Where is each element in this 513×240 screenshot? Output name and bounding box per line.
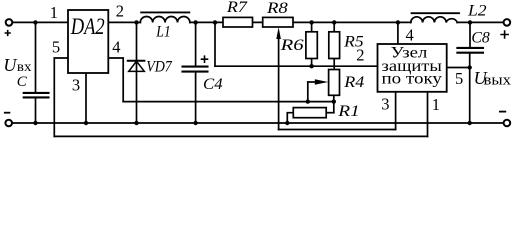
- resistor R1: [293, 108, 326, 118]
- capacitor C4: [183, 66, 208, 68]
- svg-text:1: 1: [50, 3, 58, 22]
- svg-text:C: C: [17, 74, 28, 90]
- svg-text:DA2: DA2: [70, 14, 105, 39]
- wire bottom rail: [12, 122, 503, 124]
- svg-text:3: 3: [72, 75, 80, 94]
- wire box pin3 down: [395, 92, 397, 130]
- wire DA2 pin4 down: [108, 58, 123, 102]
- svg-text:2: 2: [356, 45, 364, 64]
- wire R6 top stub: [311, 22, 313, 31]
- svg-text:2: 2: [116, 1, 124, 20]
- junction node top box pin4: [396, 20, 400, 24]
- junction node R4 wiper to pin4 rail: [306, 99, 310, 103]
- wire box pin4: [397, 22, 399, 44]
- R8 wiper arrowhead: [276, 27, 281, 39]
- inductor L2 core bar: [412, 12, 459, 14]
- svg-text:R1: R1: [337, 103, 360, 120]
- inductor L2: [411, 17, 457, 23]
- resistor R8: [263, 17, 293, 27]
- wire C4 branch bottom: [195, 72, 197, 123]
- junction node top VD7: [134, 20, 138, 24]
- wire R6 bottom stub: [311, 59, 313, 67]
- junction node top C4: [193, 20, 197, 24]
- wire R5 top stub: [333, 22, 335, 31]
- wire DA2 pin3: [85, 73, 87, 123]
- svg-text:R8: R8: [266, 0, 288, 17]
- wire capacitor C branch bottom: [35, 98, 37, 123]
- wire R1 right lead: [326, 112, 334, 114]
- svg-text:R7: R7: [226, 0, 249, 16]
- svg-text:5: 5: [52, 37, 60, 56]
- svg-text:C8: C8: [471, 30, 489, 47]
- junction node top R5: [332, 20, 336, 24]
- diode VD7 cathode bar: [128, 60, 145, 62]
- wire DA2 pin5 to bottom bus: [54, 58, 68, 136]
- svg-text:L2: L2: [467, 2, 487, 19]
- junction node rail DA2 pin3: [84, 121, 88, 125]
- wire pin4 feedback rail: [123, 101, 334, 103]
- protection block U1: [378, 44, 447, 92]
- label output plus: [500, 30, 509, 38]
- junction node rail VD7: [134, 121, 138, 125]
- resistor R6: [306, 32, 317, 59]
- wire box pin5 to C8: [447, 67, 470, 69]
- junction node top C8: [468, 20, 472, 24]
- wire top rail left: [13, 21, 68, 23]
- wire wiper bus to box pin3: [279, 129, 396, 131]
- capacitor C8: [457, 47, 483, 49]
- svg-text:U: U: [3, 55, 17, 75]
- inductor L1 core bar: [141, 11, 189, 13]
- svg-text:4: 4: [112, 37, 120, 56]
- wire bottom bus pin5 to box pin1: [54, 135, 427, 137]
- op-amp block DA2: [68, 10, 108, 73]
- junction node box pin5 C8: [468, 65, 472, 69]
- wire capacitor C branch top: [35, 22, 37, 92]
- junction node top R6: [309, 20, 313, 24]
- label C4 plus: [201, 55, 209, 63]
- svg-text:5: 5: [455, 69, 463, 88]
- wire R4 bottom to R1 right lead: [333, 95, 335, 112]
- svg-text:1: 1: [432, 95, 440, 114]
- svg-text:4: 4: [406, 25, 414, 44]
- diode VD7 triangle: [129, 61, 145, 71]
- wire C4 branch top: [195, 22, 197, 66]
- inductor L1: [140, 16, 190, 22]
- junction node rail C: [33, 121, 37, 125]
- terminal input plus: [6, 19, 13, 26]
- resistor R7: [223, 17, 253, 27]
- label input plus: [5, 30, 11, 36]
- junction node rail C4: [193, 121, 197, 125]
- junction node rail C8: [468, 121, 472, 125]
- svg-text:VD7: VD7: [146, 58, 172, 75]
- wire R4 wiper: [308, 81, 316, 83]
- resistor R5: [329, 32, 340, 59]
- wire mid rail to box pin2: [215, 65, 378, 67]
- wire box pin1 down: [427, 92, 429, 137]
- terminal output plus: [504, 19, 511, 26]
- svg-text:по току: по току: [382, 70, 442, 87]
- svg-text:3: 3: [381, 95, 389, 114]
- wire R8 wiper down: [278, 37, 280, 130]
- label input minus: [4, 112, 10, 114]
- junction node top C: [33, 20, 37, 24]
- wire R5 to R4 stub: [333, 59, 335, 70]
- junction node rail R1: [285, 121, 289, 125]
- wire diode VD7 branch: [136, 22, 138, 123]
- junction node R6 bottom: [309, 64, 313, 68]
- resistor R4: [329, 70, 340, 96]
- junction node R4 bottom to pin4 rail: [332, 99, 336, 103]
- svg-text:C4: C4: [203, 76, 223, 93]
- svg-text:вых: вых: [484, 72, 512, 88]
- terminal output minus: [504, 120, 511, 127]
- svg-text:L1: L1: [155, 24, 170, 41]
- wire top rail DA2 to L1: [108, 21, 140, 23]
- svg-text:R4: R4: [343, 74, 364, 91]
- wire R1 left lead: [287, 113, 293, 123]
- wire top rail L1 to L2: [190, 21, 411, 23]
- wire top rail L2 to output: [457, 21, 503, 23]
- svg-text:R6: R6: [279, 37, 303, 54]
- junction node top 215: [213, 20, 217, 24]
- wire C8 branch bottom: [469, 54, 471, 124]
- R4 wiper arrowhead: [315, 79, 328, 84]
- wire C8 branch top: [469, 22, 471, 47]
- wire node 215 down: [214, 22, 216, 66]
- svg-text:вх: вх: [17, 59, 32, 74]
- capacitor C: [24, 92, 49, 94]
- label output minus: [499, 111, 506, 113]
- terminal input minus: [5, 120, 12, 127]
